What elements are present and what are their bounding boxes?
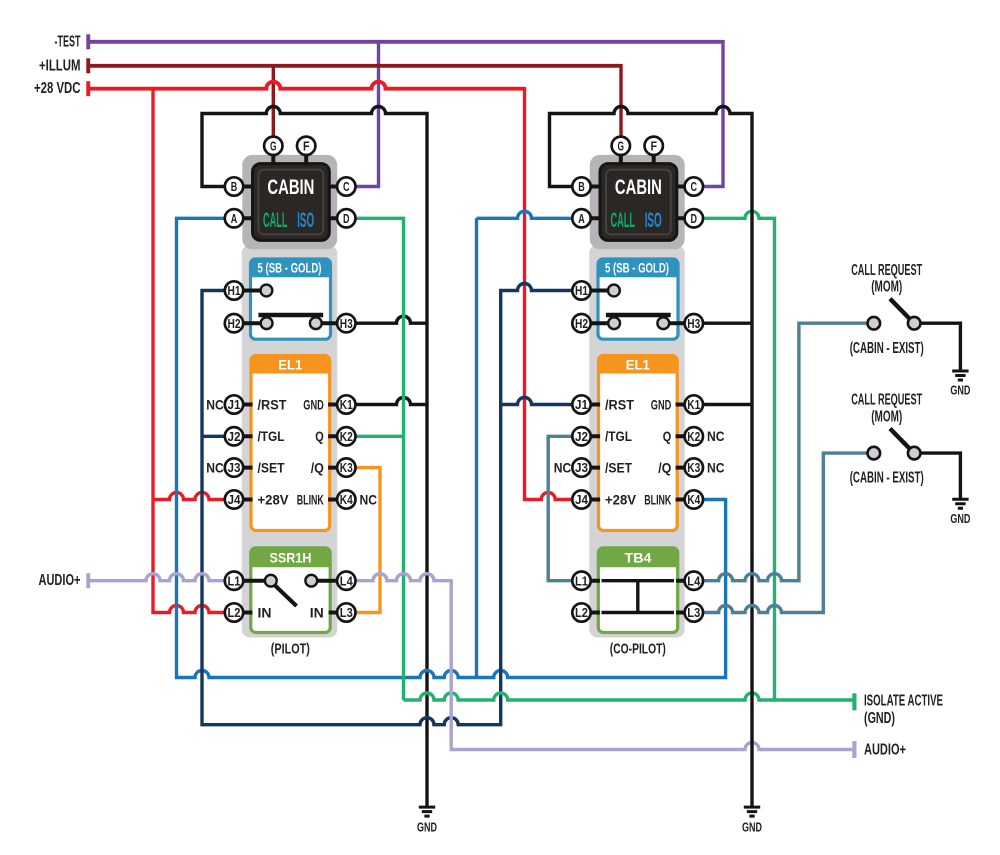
svg-text:(CABIN - EXIST): (CABIN - EXIST) (850, 340, 924, 357)
svg-text:NC: NC (707, 460, 725, 475)
net -TEST tick (86, 34, 90, 49)
wire green isolate bottom line (404, 693, 855, 700)
pin pilot D (337, 209, 355, 227)
pin co-pilot L4 (685, 572, 703, 590)
svg-text:GND: GND (303, 397, 324, 412)
wire green co-pilot D down (703, 211, 775, 700)
pin co-pilot B (572, 177, 590, 195)
pin co-pilot J1 (572, 395, 590, 413)
svg-text:BLINK: BLINK (297, 492, 324, 507)
svg-text:/RST: /RST (605, 397, 635, 412)
svg-text:C: C (691, 180, 698, 194)
svg-text:F: F (650, 139, 657, 153)
pin co-pilot C (685, 177, 703, 195)
wire black co-pilot H3 branch (703, 322, 752, 325)
wire teal co-pilot J2 to L1 (548, 436, 572, 580)
svg-text:/Q: /Q (658, 460, 671, 475)
pin pilot B (225, 177, 243, 195)
wire black pilot loop B to GND (202, 107, 427, 808)
wire black pilot K1 branch (356, 398, 428, 405)
svg-text:K1: K1 (340, 398, 353, 412)
pin co-pilot K1 (685, 395, 703, 413)
pilot switch bar (258, 313, 323, 317)
wire dark red branch to pilot G (272, 66, 275, 137)
net AUDIO+ right tick (852, 741, 856, 758)
svg-text:J2: J2 (575, 430, 588, 444)
svg-text:NC: NC (360, 492, 378, 507)
call request switch 1 lever (890, 299, 912, 322)
svg-text:GND: GND (950, 382, 970, 397)
svg-text:(PILOT): (PILOT) (271, 641, 310, 658)
svg-text:Q: Q (315, 429, 324, 444)
wire black co-pilot K1 branch (703, 403, 752, 406)
svg-text:+28 VDC: +28 VDC (34, 80, 81, 97)
pin co-pilot J3 (572, 458, 590, 476)
svg-text:IN: IN (258, 605, 272, 620)
svg-text:D: D (343, 212, 350, 226)
svg-text:H1: H1 (575, 284, 588, 298)
svg-text:(CABIN - EXIST): (CABIN - EXIST) (850, 470, 924, 487)
pin pilot K2 (337, 427, 355, 445)
svg-text:J1: J1 (228, 398, 241, 412)
wire teal L4 to switch1 (703, 323, 867, 581)
svg-text:EL1: EL1 (626, 356, 650, 372)
svg-text:BLINK: BLINK (644, 492, 671, 507)
pin co-pilot H1 (572, 281, 590, 299)
svg-text:H3: H3 (687, 317, 700, 331)
wire lavender L4 to AUDIO+ right (356, 574, 855, 750)
wire dark red +ILLUM rail (88, 64, 621, 68)
net ISOLATE ACTIVE tick (852, 693, 856, 710)
pin co-pilot L2 (572, 603, 590, 621)
svg-text:C: C (343, 180, 350, 194)
pin pilot J1 (225, 395, 243, 413)
wire lavender AUDIO+ left (88, 574, 225, 581)
svg-text:H2: H2 (575, 317, 588, 331)
wire black switch1 to gnd (921, 323, 961, 371)
pin pilot F (297, 137, 315, 155)
pilot block SSR1H (251, 548, 330, 633)
wire orange K3 to L3 (356, 468, 381, 613)
pilot flasher block EL1 (251, 356, 330, 531)
wire black co-pilot loop B to GND (550, 107, 753, 808)
svg-text:-TEST: -TEST (55, 33, 81, 50)
pin pilot J2 (225, 427, 243, 445)
svg-text:(MOM): (MOM) (871, 408, 902, 425)
pin pilot C (337, 177, 355, 195)
pin pilot K3 (337, 458, 355, 476)
net +ILLUM tick (86, 58, 90, 73)
svg-text:K4: K4 (687, 493, 700, 507)
pin pilot L4 (337, 572, 355, 590)
co-pilot CABIN bezel (590, 155, 685, 249)
pilot pin stubs (243, 155, 338, 613)
co-pilot relay block 5 (SB - GOLD) (598, 259, 678, 339)
call request switch 1 contacts (868, 317, 881, 330)
pin pilot G (264, 137, 282, 155)
wire black switch2 to gnd (921, 453, 961, 499)
svg-text:G: G (618, 139, 625, 153)
pilot H1 internal contact (243, 289, 266, 293)
svg-text:A: A (578, 212, 585, 226)
wire red +28 VDC rail (88, 82, 525, 89)
wire red pilot vertical (153, 89, 225, 613)
svg-text:(CO-PILOT): (CO-PILOT) (610, 641, 666, 658)
svg-text:B: B (231, 180, 238, 194)
svg-text:+ILLUM: +ILLUM (39, 57, 81, 74)
co-pilot H3 internal contact (663, 321, 684, 325)
svg-text:NC: NC (206, 397, 224, 412)
svg-text:/SET: /SET (605, 460, 633, 475)
svg-text:L4: L4 (687, 574, 700, 588)
svg-text:AUDIO+: AUDIO+ (864, 742, 906, 759)
pin co-pilot F (645, 137, 663, 155)
svg-text:L3: L3 (687, 606, 700, 620)
pilot gray mounting strip (242, 245, 337, 638)
pin pilot H2 (225, 314, 243, 332)
co-pilot H2 internal contact (591, 321, 614, 325)
pin pilot H1 (225, 281, 243, 299)
svg-text:GND: GND (651, 397, 672, 412)
pin co-pilot J2 (572, 427, 590, 445)
svg-text:AUDIO+: AUDIO+ (39, 572, 81, 589)
svg-text:L2: L2 (575, 606, 588, 620)
svg-text:K3: K3 (687, 461, 700, 475)
svg-text:GND: GND (950, 511, 970, 526)
pin co-pilot H2 (572, 314, 590, 332)
svg-text:D: D (691, 212, 698, 226)
svg-text:/SET: /SET (258, 460, 286, 475)
wire blue net A1-A2-K4 (177, 218, 726, 677)
pilot switch lever (274, 585, 297, 607)
co-pilot H1 internal contact (591, 289, 614, 293)
co-pilot TB4 internal bus (602, 581, 675, 613)
svg-text:L2: L2 (228, 606, 241, 620)
svg-text:K2: K2 (687, 430, 700, 444)
co-pilot pin stubs (590, 155, 685, 613)
svg-text:A: A (231, 212, 238, 226)
svg-text:K3: K3 (340, 461, 353, 475)
call request switch 2 lever (890, 429, 912, 452)
wire red pilot J4 branch (153, 493, 225, 500)
svg-text:+28V: +28V (258, 492, 289, 507)
pin pilot K1 (337, 395, 355, 413)
svg-text:G: G (270, 139, 277, 153)
co-pilot flasher block EL1 (599, 356, 678, 531)
wire black pilot H3 branch (356, 316, 428, 323)
pin co-pilot J4 (572, 490, 590, 508)
svg-text:CALL: CALL (263, 209, 288, 232)
pin pilot J3 (225, 458, 243, 476)
svg-text:CALL REQUEST: CALL REQUEST (851, 392, 922, 409)
svg-text:CABIN: CABIN (615, 176, 662, 199)
svg-text:/TGL: /TGL (258, 429, 285, 444)
svg-text:H1: H1 (228, 284, 241, 298)
pin pilot H3 (337, 314, 355, 332)
pilot L1 internal contact (243, 579, 271, 583)
pilot CABIN display box (253, 164, 330, 241)
wire blue co-pilot A branch (477, 211, 573, 677)
svg-text:ISOLATE ACTIVE: ISOLATE ACTIVE (864, 693, 943, 710)
wire navy pilot J2 branch (202, 435, 225, 438)
svg-text:J2: J2 (228, 430, 241, 444)
svg-text:GND: GND (742, 819, 762, 834)
pilot H3 internal contact (316, 321, 337, 325)
svg-text:EL1: EL1 (278, 356, 302, 372)
svg-text:5 (SB - GOLD): 5 (SB - GOLD) (605, 260, 669, 276)
svg-text:H2: H2 (228, 317, 241, 331)
pin co-pilot K2 (685, 427, 703, 445)
svg-text:IN: IN (310, 605, 324, 620)
svg-text:NC: NC (206, 460, 224, 475)
pin pilot L3 (337, 603, 355, 621)
svg-text:TB4: TB4 (625, 550, 652, 566)
svg-text:CALL REQUEST: CALL REQUEST (851, 262, 922, 279)
pin pilot J4 (225, 490, 243, 508)
pin co-pilot L3 (685, 603, 703, 621)
svg-text:NC: NC (554, 460, 572, 475)
net +28 VDC tick (86, 81, 90, 96)
svg-text:L4: L4 (340, 574, 353, 588)
pin co-pilot L1 (572, 572, 590, 590)
wire navy net H1-J2 / H1-J1 (202, 284, 572, 725)
svg-text:ISO: ISO (645, 209, 662, 232)
pin co-pilot D (685, 209, 703, 227)
svg-text:L3: L3 (340, 606, 353, 620)
pilot H2 internal contact (243, 321, 266, 325)
pin co-pilot G (612, 137, 630, 155)
co-pilot gray mounting strip (589, 245, 684, 638)
svg-text:CALL: CALL (611, 209, 636, 232)
svg-text:/RST: /RST (258, 397, 288, 412)
svg-text:J4: J4 (575, 493, 588, 507)
svg-text:CABIN: CABIN (267, 176, 314, 199)
svg-text:(GND): (GND) (864, 710, 895, 727)
svg-text:K4: K4 (340, 493, 353, 507)
svg-text:J1: J1 (575, 398, 588, 412)
call request switch 1 gnd (952, 371, 968, 380)
net AUDIO+ left tick (86, 573, 90, 588)
ground pilot (419, 807, 435, 816)
pin co-pilot K4 (685, 490, 703, 508)
pin pilot L2 (225, 603, 243, 621)
pin pilot L1 (225, 572, 243, 590)
co-pilot CABIN display box (600, 164, 677, 241)
pin co-pilot A (572, 209, 590, 227)
co-pilot block TB4 (598, 548, 677, 633)
svg-text:/Q: /Q (311, 460, 324, 475)
svg-text:H3: H3 (340, 317, 353, 331)
wire green pilot K2 branch (356, 435, 404, 438)
svg-text:K2: K2 (340, 430, 353, 444)
svg-text:Q: Q (663, 429, 672, 444)
wire purple -TEST rail (88, 40, 723, 44)
call request switch 2 contacts (868, 447, 881, 460)
pilot relay block 5 (SB - GOLD) (251, 259, 331, 339)
svg-text:ISO: ISO (297, 209, 314, 232)
svg-text:B: B (578, 180, 585, 194)
svg-text:L1: L1 (228, 574, 241, 588)
svg-text:NC: NC (707, 429, 725, 444)
svg-text:J4: J4 (228, 493, 241, 507)
svg-text:/TGL: /TGL (605, 429, 632, 444)
pilot L4 internal contact (311, 579, 337, 583)
ground co-pilot (744, 807, 760, 816)
svg-text:+28V: +28V (605, 492, 636, 507)
svg-text:GND: GND (417, 819, 437, 834)
pilot CABIN bezel (242, 155, 337, 249)
call request switch 2 gnd (952, 499, 968, 508)
svg-text:L1: L1 (575, 574, 588, 588)
svg-text:(MOM): (MOM) (871, 279, 902, 296)
pin pilot K4 (337, 490, 355, 508)
svg-text:J3: J3 (228, 461, 241, 475)
pin co-pilot H3 (685, 314, 703, 332)
wire teal L3 to switch2 (703, 453, 868, 612)
svg-text:SSR1H: SSR1H (270, 550, 312, 566)
wire purple branch to pilot C (356, 42, 379, 187)
wire green pilot D down (356, 218, 404, 700)
pin co-pilot K3 (685, 458, 703, 476)
svg-text:F: F (303, 139, 310, 153)
pin pilot A (225, 209, 243, 227)
svg-text:5 (SB - GOLD): 5 (SB - GOLD) (258, 260, 322, 276)
wire navy co-pilot J1 branch (501, 398, 573, 405)
svg-text:K1: K1 (687, 398, 700, 412)
co-pilot switch bar (606, 313, 671, 317)
svg-text:J3: J3 (575, 461, 588, 475)
